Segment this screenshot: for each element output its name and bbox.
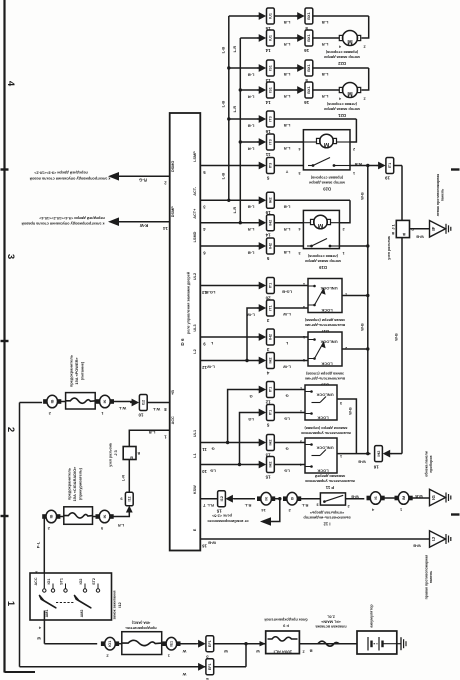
fusible link FL MAIN (318, 641, 339, 646)
svg-text:IT1: IT1 (269, 387, 273, 393)
svg-text:предохранитель: предохранитель (67, 467, 72, 500)
svg-text:IH2: IH2 (269, 440, 273, 446)
wire L2 branch to D17 lock (247, 308, 259, 361)
wire F9 to battery (299, 643, 367, 645)
svg-text:1: 1 (300, 410, 302, 414)
svg-text:14: 14 (163, 226, 168, 231)
motor D22 rear door lock motor (343, 31, 358, 46)
arrow up into I12 pin9 (126, 506, 133, 513)
svg-text:IH2: IH2 (269, 243, 273, 249)
svg-text:40A (AM1): 40A (AM1) (131, 621, 150, 625)
wire row3 L-B to D21 (229, 67, 259, 69)
wire D17 common to ground bus (342, 295, 368, 297)
svg-text:IH2: IH2 (269, 462, 273, 468)
svg-text:D21: D21 (337, 113, 345, 118)
motor D21 rear door lock motor (343, 83, 358, 98)
svg-text:3: 3 (5, 254, 16, 259)
svg-text:блок предохранителей: блок предохранителей (264, 618, 308, 622)
svg-text:+B: +B (171, 390, 175, 395)
svg-text:предохранитель: предохранитель (125, 626, 157, 630)
wire E to IJ ground (200, 538, 429, 540)
svg-text:W-L: W-L (152, 407, 160, 412)
arrow to power window motor LH (108, 172, 119, 181)
svg-text:G: G (285, 447, 288, 452)
svg-text:L-R: L-R (284, 42, 291, 47)
svg-text:3: 3 (298, 251, 300, 255)
svg-text:M: M (324, 141, 329, 148)
svg-text:IG1: IG1 (47, 579, 51, 585)
svg-text:R-W: R-W (140, 223, 148, 228)
fuse 15A CIG RADIO (64, 507, 93, 525)
connector I12 pin10 (132, 399, 140, 407)
battery ground (397, 643, 401, 645)
connector IT1 pin19 (378, 162, 386, 170)
svg-text:от комбинированного: от комбинированного (207, 519, 249, 523)
wire ignition ACC up to CIG row (44, 517, 47, 574)
svg-text:L-R: L-R (118, 523, 125, 527)
svg-text:I12: I12 (220, 496, 224, 501)
wire IK to junction (273, 498, 281, 500)
svg-text:LOCK: LOCK (321, 308, 332, 313)
wire D21 loop (362, 68, 369, 90)
svg-text:W-B: W-B (415, 494, 423, 498)
svg-text:ACT+: ACT+ (193, 208, 197, 219)
svg-text:W-B: W-B (361, 323, 365, 331)
wire to CIG fuse (59, 516, 64, 518)
svg-text:M: M (347, 38, 352, 45)
wire J1 to ground IF (410, 228, 430, 230)
junction L-R bus row6 (239, 140, 242, 143)
svg-text:W-B: W-B (208, 541, 216, 546)
svg-text:11: 11 (265, 152, 270, 157)
svg-text:15A «POWER»: 15A «POWER» (74, 357, 79, 384)
svg-text:L-B: L-B (221, 101, 226, 108)
unlock warning switch I12 box (320, 493, 345, 505)
wire IT1 to x402 vertical (394, 165, 402, 167)
wire to POWER fuse (59, 401, 65, 403)
wire switch to IG ground (346, 498, 365, 500)
svg-text:W: W (37, 636, 41, 640)
svg-text:KSW: KSW (193, 485, 197, 494)
svg-text:W-B: W-B (358, 460, 366, 464)
svg-text:L-B: L-B (248, 250, 255, 255)
svg-text:3: 3 (303, 305, 305, 309)
svg-text:IH2: IH2 (269, 334, 273, 340)
connector IU1 pin15 row1 (259, 12, 267, 20)
svg-text:L-B: L-B (284, 205, 291, 210)
junction x368 row165 (366, 164, 369, 167)
svg-text:IU1: IU1 (269, 13, 273, 19)
svg-text:(правая сторона): (правая сторона) (310, 176, 343, 180)
svg-text:IT3: IT3 (269, 139, 273, 145)
svg-text:узел разъема: узел разъема (387, 236, 391, 260)
svg-text:L-B: L-B (284, 123, 291, 128)
svg-text:L-R: L-R (248, 227, 255, 232)
svg-text:L-W: L-W (283, 365, 291, 370)
junction L-B bus ACT- (227, 199, 230, 202)
svg-text:L-R: L-R (122, 475, 126, 482)
svg-text:19: 19 (385, 175, 391, 180)
svg-text:B: B (130, 456, 133, 461)
svg-text:EF1: EF1 (208, 640, 212, 647)
svg-text:G: G (249, 394, 252, 399)
svg-text:UNLOCK: UNLOCK (316, 446, 333, 451)
svg-text:L-B: L-B (322, 72, 329, 77)
svg-text:BX1: BX1 (307, 34, 311, 41)
connector circle IE1 pin1 (166, 637, 177, 650)
svg-text:W: W (182, 672, 186, 677)
wire 40A to IE1 (162, 643, 166, 645)
svg-text:DSMP: DSMP (171, 206, 175, 217)
border tick right y169 (451, 168, 460, 170)
svg-text:L1: L1 (193, 453, 197, 457)
connector IH2 pin15 row464 (259, 461, 267, 469)
svg-text:10: 10 (202, 469, 207, 474)
svg-text:LOCK: LOCK (321, 362, 332, 367)
wire row2 L-R to D22 (240, 37, 259, 39)
wire DSMO to window motor ref (119, 175, 170, 177)
wire DSMP to window motor ref (119, 221, 170, 223)
motor symbol D20 (320, 134, 334, 148)
connector EF1 pin4 (198, 663, 206, 671)
svg-text:W-B: W-B (349, 407, 353, 415)
svg-text:IB: IB (50, 514, 54, 518)
wire L1 row to P11 (200, 464, 259, 466)
connector I12 pin15 KSW (218, 491, 226, 507)
connector circle IK pin5 CIG (99, 510, 110, 523)
svg-text:BX1: BX1 (307, 86, 311, 93)
svg-text:L-R: L-R (248, 146, 255, 151)
junction x368 row349 (366, 347, 369, 350)
svg-text:14: 14 (265, 233, 271, 238)
svg-text:выключатель-датчик: выключатель-датчик (305, 377, 345, 381)
junction x368 row246 (366, 244, 369, 247)
svg-text:14: 14 (265, 100, 271, 105)
door lock motor D19 box (303, 210, 339, 248)
svg-text:ACC: ACC (171, 416, 175, 424)
svg-text:аккумулятор: аккумулятор (370, 604, 374, 628)
svg-text:LG: LG (210, 469, 216, 474)
svg-text:передней двери <9-4><10-2><10-: передней двери <9-4><10-2><10-4> (38, 216, 104, 220)
svg-text:3: 3 (303, 358, 305, 362)
svg-text:UNLOCK: UNLOCK (316, 393, 333, 398)
svg-text:2: 2 (363, 45, 365, 49)
svg-text:LG: LG (248, 417, 254, 422)
svg-text:1: 1 (340, 454, 342, 458)
wire KSW to I12 connector (200, 498, 226, 500)
D19 switch contact (310, 245, 313, 248)
svg-text:ST1: ST1 (60, 578, 64, 585)
svg-text:L-B: L-B (248, 123, 255, 128)
ground bus vertical x368 (367, 166, 369, 454)
ground IJ cowl RH (430, 531, 446, 548)
svg-text:2: 2 (347, 504, 349, 508)
svg-text:4: 4 (5, 81, 16, 87)
svg-text:(левая сторона): (левая сторона) (307, 254, 338, 258)
border tick y340 (1, 340, 9, 342)
svg-text:11: 11 (202, 447, 207, 452)
battery cells (367, 637, 369, 651)
svg-text:100A ALT: 100A ALT (273, 650, 293, 655)
svg-text:L-B: L-B (284, 72, 291, 77)
svg-text:P-L: P-L (36, 541, 41, 548)
junction L2 branch (245, 359, 248, 362)
L-R bus vertical (239, 38, 241, 223)
svg-text:D 6: D 6 (180, 338, 185, 346)
svg-text:BX1: BX1 (307, 64, 311, 71)
wire IE1 to EF1 (179, 643, 197, 645)
ignition wire into ACC contact (43, 573, 45, 588)
wire x402 to IH2-16 (391, 453, 403, 455)
svg-text:мотор замка двери: мотор замка двери (304, 259, 340, 263)
svg-text:к электроприводу опускания сте: к электроприводу опускания стекла левой (29, 176, 110, 180)
wire ACT+ row to D19 (200, 222, 259, 224)
wire row6 L-R to D20 (240, 141, 259, 143)
svg-text:16: 16 (265, 129, 271, 134)
fuse 15A POWER (66, 393, 96, 409)
ignition switch box (30, 573, 112, 620)
wire fuse to IK circle (95, 401, 99, 403)
svg-text:IH2: IH2 (377, 451, 381, 457)
junction bottom rows (244, 642, 247, 645)
ignition lever AM1 (40, 596, 56, 608)
wire row1 L-B to D22 (229, 15, 259, 17)
svg-text:12: 12 (202, 365, 207, 370)
svg-text:W-B: W-B (351, 495, 359, 499)
wire D22 loop (362, 16, 369, 38)
riser J3 to ACC row (129, 430, 169, 446)
junction block J3 box (123, 447, 136, 460)
svg-text:2: 2 (302, 650, 304, 654)
svg-text:L-B: L-B (221, 47, 226, 54)
wire D20 loop (350, 119, 356, 142)
svg-text:W-B: W-B (361, 192, 365, 200)
svg-text:16: 16 (202, 543, 207, 548)
svg-text:LG-B: LG-B (282, 290, 292, 295)
svg-text:15: 15 (265, 474, 271, 479)
wire row2 riser (245, 644, 247, 667)
svg-text:I 12: I 12 (323, 522, 331, 527)
svg-text:15: 15 (216, 509, 222, 514)
svg-text:приборов: приборов (429, 455, 433, 473)
svg-text:L2: L2 (193, 349, 197, 353)
svg-text:L-R: L-R (248, 94, 255, 99)
svg-text:3: 3 (340, 401, 342, 405)
svg-text:AM1: AM1 (45, 610, 49, 618)
border tick right y514 (451, 513, 460, 515)
wire L1 branch to D18 (240, 413, 260, 465)
svg-text:мотор замка двери: мотор замка двери (323, 107, 359, 111)
svg-text:M: M (347, 90, 352, 97)
connector circle IG1 pin2 40A (105, 637, 116, 650)
svg-text:E: E (193, 528, 197, 531)
svg-text:L-B: L-B (248, 205, 255, 210)
wire P11 common right (337, 453, 371, 455)
svg-text:LG: LG (284, 469, 290, 474)
wire D20 switch to ground bus (350, 165, 379, 167)
wire UL3 row to D15 (200, 336, 259, 338)
ground bus vertical x402 (401, 166, 403, 454)
door lock sensor switch D17 box (308, 279, 342, 313)
connector IH2 pin16 (383, 450, 391, 458)
wire I9 to key switch (299, 498, 320, 500)
connector IH2 pin13 row442 (259, 439, 267, 447)
arrow to power window motor RH (108, 217, 119, 226)
svg-text:IM: IM (402, 496, 406, 500)
svg-text:W-L: W-L (118, 406, 126, 411)
svg-text:D19: D19 (318, 265, 326, 270)
svg-text:14: 14 (265, 48, 271, 53)
door lock motor D20 box (303, 130, 350, 170)
svg-text:DSMO: DSMO (171, 161, 175, 172)
svg-text:выключатель управления: выключатель управления (305, 479, 355, 483)
wire to ECU +B (147, 402, 170, 404)
svg-text:I6: I6 (374, 496, 378, 499)
wire LSMD row to D19 switch (200, 245, 259, 247)
svg-text:R-L: R-L (207, 503, 214, 508)
svg-text:W-B: W-B (413, 544, 421, 548)
svg-text:L-W: L-W (207, 365, 215, 370)
wire UL1 row to P11 (200, 442, 259, 444)
svg-text:L-B: L-B (322, 20, 329, 25)
wire UL1 branch to D18 (228, 390, 259, 443)
svg-text:IJ: IJ (431, 537, 436, 541)
riser I12 to J3 (128, 460, 130, 493)
svg-text:L-R: L-R (232, 46, 237, 53)
junction L-R bus ACT+ (239, 221, 242, 224)
svg-text:EF1: EF1 (208, 663, 212, 670)
svg-text:14: 14 (261, 508, 266, 513)
svg-text:выключатель управления: выключатель управления (301, 431, 351, 435)
svg-text:(прикуриватель): (прикуриватель) (78, 467, 83, 500)
connector IT1 pin20 UL2 row (259, 282, 267, 290)
svg-text:L-R: L-R (232, 106, 237, 113)
svg-text:передней двери <9-3><10-2>: передней двери <9-3><10-2> (33, 171, 87, 175)
svg-text:IB: IB (50, 399, 54, 403)
svg-text:IF: IF (431, 227, 436, 231)
svg-text:L-B: L-B (284, 20, 291, 25)
svg-text:(правая сторона): (правая сторона) (325, 50, 358, 54)
svg-text:M: M (318, 222, 323, 229)
feed bus left vertical (19, 403, 21, 667)
svg-text:замка двери (справа): замка двери (справа) (304, 318, 345, 322)
svg-text:3: 3 (298, 171, 300, 175)
svg-text:B: B (137, 451, 140, 455)
svg-text:LOCK: LOCK (317, 416, 328, 421)
svg-text:IH2: IH2 (269, 197, 273, 203)
svg-text:I12: I12 (142, 400, 146, 405)
svg-text:P 11: P 11 (325, 485, 334, 490)
svg-text:L-R: L-R (322, 94, 329, 99)
svg-text:L-B: L-B (221, 173, 226, 180)
svg-text:W: W (182, 649, 186, 654)
svg-text:Y: Y (285, 170, 288, 175)
svg-text:UL3: UL3 (193, 324, 197, 331)
svg-text:IH2: IH2 (269, 220, 273, 226)
svg-text:IS1: IS1 (269, 87, 273, 93)
svg-text:реле управления замками дверей: реле управления замками дверей (187, 271, 191, 334)
svg-text:IH2: IH2 (269, 358, 273, 364)
svg-text:10: 10 (138, 412, 144, 417)
junction x368 row453 (366, 452, 369, 455)
svg-text:B: B (391, 231, 394, 235)
svg-text:мотор замка двери: мотор замка двери (308, 181, 344, 185)
svg-text:IT1: IT1 (388, 163, 392, 169)
connector IT3 pin5 LSMP row (259, 162, 267, 170)
wire D15 common to ground bus (342, 348, 368, 350)
svg-text:2: 2 (300, 387, 302, 391)
svg-text:плавкая вставка: плавкая вставка (315, 625, 347, 629)
junction x368 row295 (366, 294, 369, 297)
svg-text:I9: I9 (290, 497, 294, 500)
wire D19 loop (339, 200, 350, 222)
connector EF1 pin3 (198, 640, 206, 648)
ignition lever AM2 (75, 596, 91, 608)
svg-text:BX1: BX1 (307, 12, 311, 19)
svg-text:D22: D22 (337, 61, 345, 66)
svg-text:замками дверей: замками дверей (314, 474, 345, 478)
page border left (3, 0, 5, 673)
motor symbol D19 (314, 215, 328, 229)
svg-text:выключатель-датчик: выключатель-датчик (305, 323, 345, 327)
border tick y169 (1, 168, 9, 170)
wire row4 L-R to D21 (240, 89, 259, 91)
door lock control switch D18 box (305, 385, 337, 420)
svg-text:IT3: IT3 (269, 116, 273, 122)
connector I12 pin9 (125, 492, 133, 506)
wire +B row (20, 402, 43, 404)
svg-text:обивка панели: обивка панели (425, 451, 429, 477)
svg-text:L-W: L-W (247, 312, 255, 317)
svg-text:к электроприводу опускания сте: к электроприводу опускания стекла правой (21, 222, 105, 226)
svg-text:левая противопожарная: левая противопожарная (436, 174, 440, 217)
svg-text:B: B (309, 649, 312, 654)
door lock control relay D6 box (170, 113, 201, 551)
wire L2 row to D15 lock (200, 360, 259, 362)
junction L1 branch (238, 463, 241, 466)
junction UL1 branch (226, 441, 229, 444)
svg-text:L-B: L-B (248, 72, 255, 77)
wire to IG ground (411, 497, 430, 499)
svg-text:1: 1 (353, 171, 355, 175)
svg-text:UL1: UL1 (193, 430, 197, 437)
svg-text:AM2: AM2 (80, 610, 84, 618)
svg-text:IK: IK (103, 399, 107, 403)
door lock sensor switch D15 box (308, 332, 342, 366)
svg-text:D20: D20 (322, 187, 330, 192)
svg-text:«FL MAIN»: «FL MAIN» (321, 620, 341, 624)
svg-text:IG: IG (431, 495, 436, 500)
connector IH2 pin4 L2 row (259, 357, 267, 365)
connector circle I6 (370, 492, 381, 505)
svg-text:I12: I12 (128, 497, 132, 502)
connector circle IK pin14 (261, 492, 272, 505)
svg-text:1: 1 (303, 282, 305, 286)
connector circle IB pin2 CIG (46, 510, 57, 523)
wire to I12 connector (112, 401, 135, 403)
wire to IK circle (234, 498, 255, 500)
svg-text:L-B: L-B (284, 250, 291, 255)
svg-text:W: W (256, 649, 260, 653)
svg-text:2: 2 (5, 427, 16, 432)
svg-text:IS1: IS1 (269, 65, 273, 71)
connector IU1 pin14 row2 (259, 34, 267, 42)
door lock control switch P11 box (305, 438, 337, 473)
ignition dashed link (56, 602, 75, 604)
svg-text:G: G (211, 447, 214, 452)
ground IF left cowl (430, 221, 446, 238)
svg-text:2: 2 (353, 147, 355, 151)
